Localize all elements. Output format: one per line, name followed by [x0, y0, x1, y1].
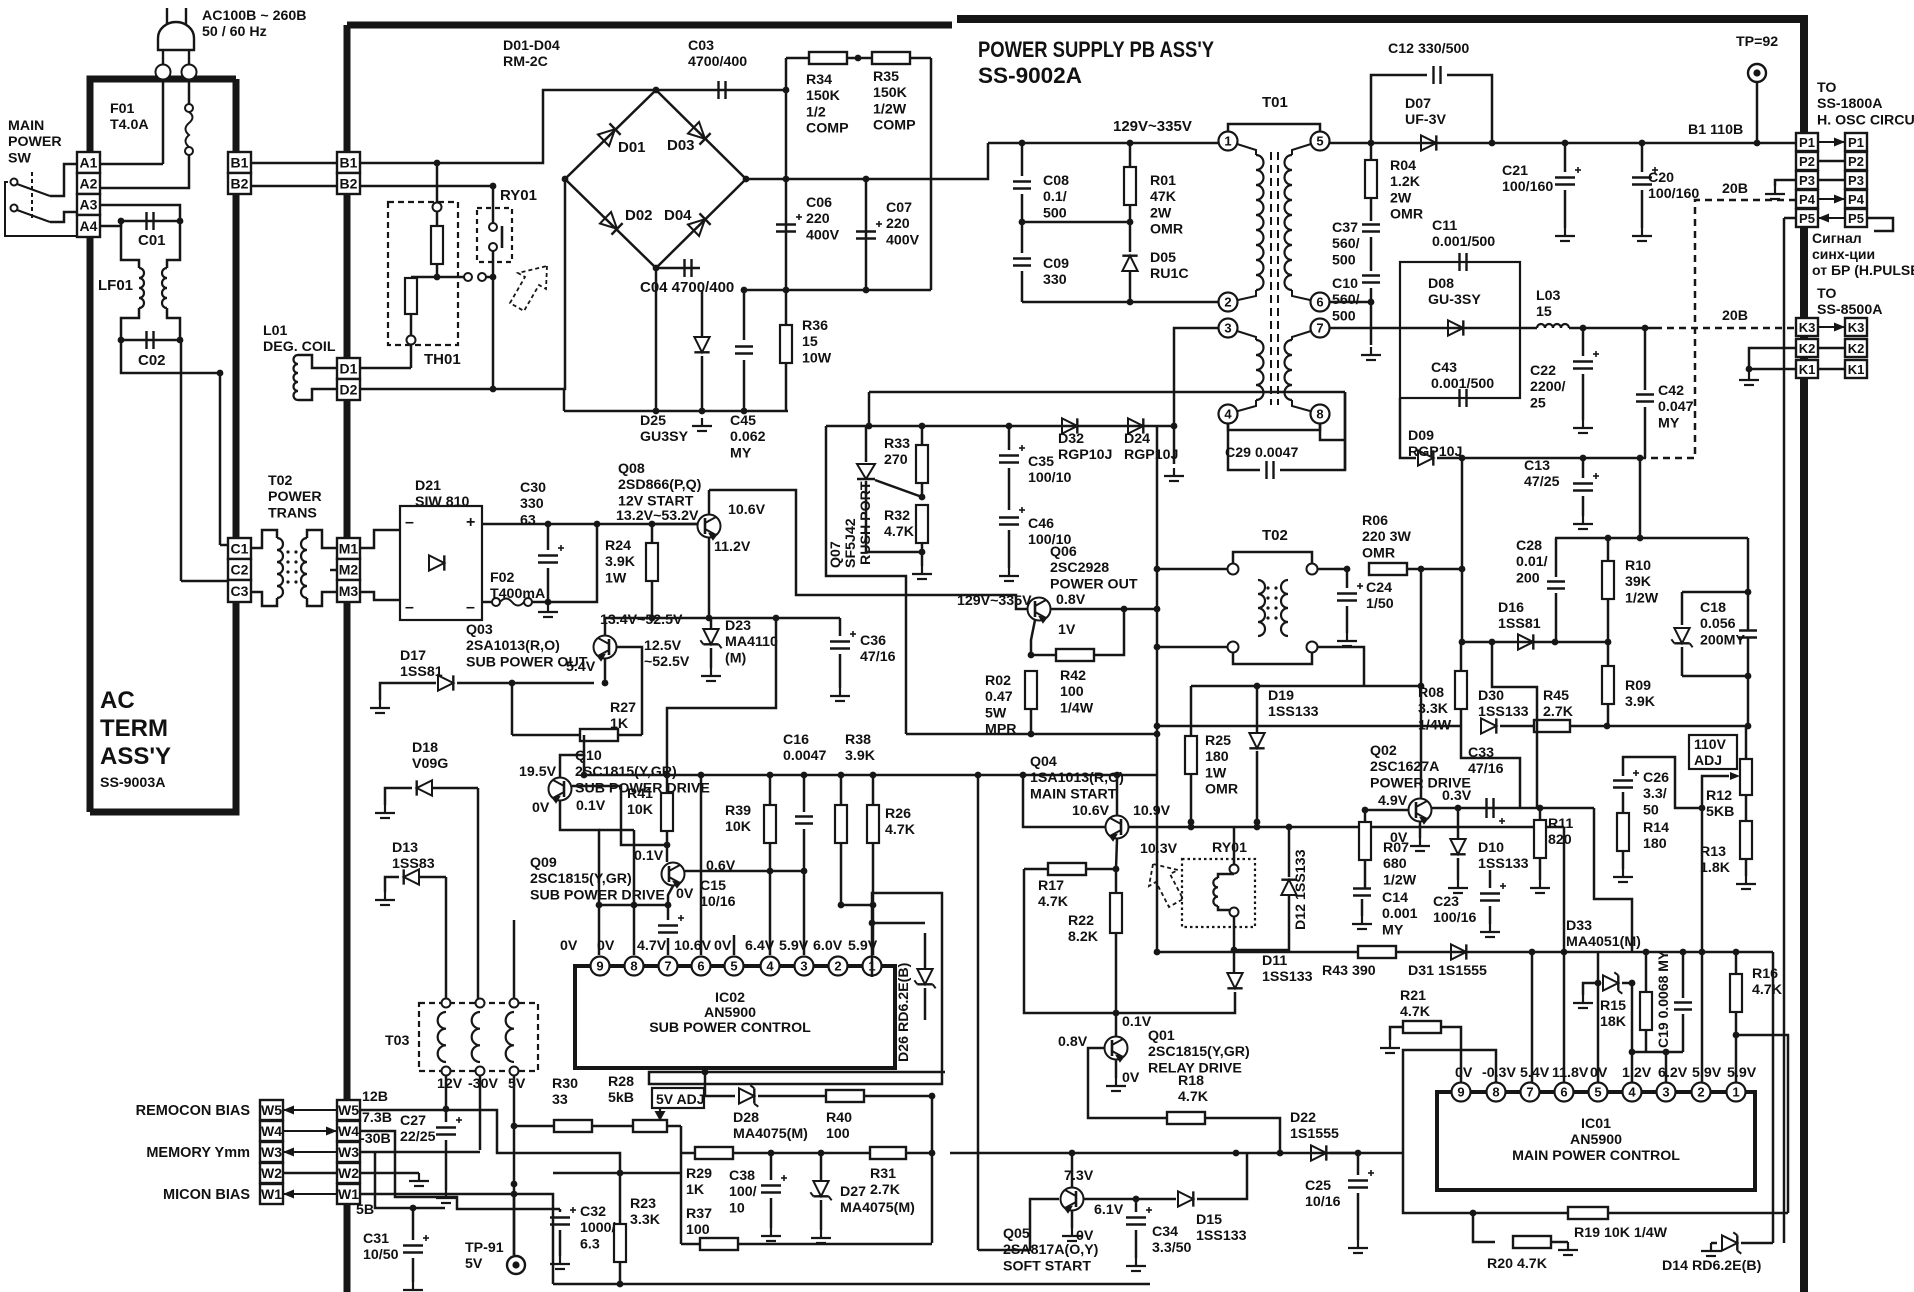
capacitor C19: [1682, 952, 1685, 998]
svg-text:MA4075(M): MA4075(M): [733, 1126, 808, 1142]
transformer T02 core dots: [1266, 586, 1269, 589]
resistor R22: [1115, 869, 1118, 894]
ground D23: [701, 668, 721, 681]
ground Q02: [1410, 838, 1430, 851]
svg-text:R24: R24: [605, 538, 631, 554]
diode D13 row: [385, 877, 399, 892]
svg-text:D25: D25: [640, 413, 666, 429]
wire pin3 drop: [803, 871, 806, 955]
wire D2 bus: [360, 388, 493, 391]
connector W5 left: [260, 1100, 283, 1120]
wire Q03 top: [604, 618, 607, 635]
connector W1 left: [260, 1184, 283, 1204]
svg-text:4.7K: 4.7K: [1178, 1089, 1209, 1105]
capacitor C45: [735, 347, 753, 354]
wire P5 hook: [1867, 218, 1893, 231]
wire R28 right column: [680, 1126, 683, 1244]
svg-text:4.7V: 4.7V: [637, 938, 667, 954]
wire down to C1: [219, 373, 222, 545]
svg-text:5: 5: [1594, 1085, 1601, 1100]
svg-text:R27: R27: [610, 700, 636, 716]
svg-text:0.1/: 0.1/: [1043, 189, 1067, 205]
svg-text:R12: R12: [1706, 788, 1732, 804]
transformer T01 winding 3-4: [1237, 331, 1256, 340]
svg-text:C09: C09: [1043, 256, 1069, 272]
svg-text:MICON BIAS: MICON BIAS: [163, 1187, 250, 1203]
wire pin5 stub: [733, 935, 736, 955]
resistor R01: [1129, 143, 1132, 167]
svg-text:H. OSC CIRCUIT: H. OSC CIRCUIT: [1817, 112, 1914, 128]
pin T01-6: [1311, 293, 1330, 312]
wire D32 D24 row: [826, 425, 1174, 428]
svg-text:POWER SUPPLY PB ASS'Y: POWER SUPPLY PB ASS'Y: [978, 37, 1214, 62]
wire Q09 emitter: [668, 886, 673, 905]
capacitor C28: [1555, 538, 1558, 577]
diode D32: [1062, 418, 1077, 433]
wire Q02 emitter: [1419, 822, 1422, 838]
svg-text:10/16: 10/16: [700, 894, 736, 910]
svg-text:R22: R22: [1068, 913, 1094, 929]
svg-text:0.062: 0.062: [730, 429, 766, 445]
terminal B1 board: [337, 152, 360, 173]
capacitor C38: [770, 1153, 773, 1180]
transformer T02 winding left: [1258, 580, 1265, 636]
wire T03 5V up stub: [513, 920, 516, 1003]
svg-text:Q09: Q09: [530, 855, 557, 871]
transistor Q09: [662, 863, 685, 888]
resistor R18: [1167, 1112, 1205, 1124]
wire R34 left leg: [785, 58, 788, 90]
svg-text:0V: 0V: [1455, 1065, 1473, 1081]
connector P2 board: [1796, 152, 1818, 170]
zener C18 network diode: [1674, 628, 1689, 643]
capacitor C33: [1487, 798, 1506, 824]
wire plug to A1: [162, 79, 165, 164]
svg-text:K3: K3: [1848, 320, 1865, 335]
svg-text:1SS81: 1SS81: [1498, 616, 1541, 632]
svg-text:F02: F02: [490, 570, 515, 586]
diode D18 row: [385, 788, 412, 805]
pin IC01-4: [1623, 1083, 1642, 1102]
svg-text:3.3K: 3.3K: [1418, 701, 1449, 717]
pin IC02-6: [692, 957, 711, 976]
wire T02 in top: [1157, 568, 1227, 571]
wire bottom rail: [564, 410, 788, 413]
svg-text:~52.5V: ~52.5V: [644, 654, 690, 670]
svg-text:5kB: 5kB: [608, 1090, 634, 1106]
capacitor C22: [1582, 328, 1585, 356]
capacitor C37: [1362, 225, 1380, 232]
svg-text:50: 50: [1643, 802, 1659, 818]
svg-text:129V~335V: 129V~335V: [1113, 118, 1192, 135]
svg-text:P5: P5: [1799, 211, 1815, 226]
svg-text:3.9K: 3.9K: [1625, 694, 1656, 710]
pin T02 top-right: [1307, 564, 1318, 575]
wire to C1: [220, 544, 228, 547]
svg-text:10/50: 10/50: [363, 1247, 399, 1263]
resistor R24: [646, 543, 658, 581]
svg-text:C13: C13: [1524, 458, 1550, 474]
diode D09: [1418, 450, 1433, 465]
svg-text:C02: C02: [138, 352, 166, 369]
pin IC02-5: [725, 957, 744, 976]
wire W4 arrow: [283, 1130, 337, 1132]
svg-text:B1 110B: B1 110B: [1688, 122, 1743, 138]
svg-text:Q02: Q02: [1370, 743, 1397, 759]
wire Q02 collector: [1420, 569, 1423, 798]
svg-text:15: 15: [802, 334, 818, 350]
svg-text:47/16: 47/16: [1468, 761, 1504, 777]
potentiometer R12: [1745, 726, 1748, 760]
svg-text:K1: K1: [1799, 362, 1816, 377]
wire R17 left column: [1024, 869, 1116, 1013]
svg-text:330: 330: [520, 496, 544, 512]
svg-text:1/2W: 1/2W: [1625, 590, 1659, 606]
svg-text:33: 33: [552, 1092, 568, 1108]
svg-text:C31: C31: [363, 1231, 389, 1247]
wire LF01 out B: [167, 308, 180, 340]
wire 12V drop: [445, 1075, 448, 1109]
svg-text:Q06: Q06: [1050, 544, 1077, 560]
wire Q10 top: [560, 755, 584, 777]
connector P5外 harness: [1845, 209, 1867, 227]
svg-text:SUB POWER DRIVE: SUB POWER DRIVE: [530, 887, 665, 903]
svg-text:OMR: OMR: [1150, 222, 1183, 238]
relay RY01 contact: [492, 186, 495, 223]
capacitor C07: [856, 221, 882, 239]
svg-text:POWER: POWER: [8, 134, 62, 150]
pin T01-1: [1219, 132, 1238, 151]
svg-text:5.9V: 5.9V: [848, 938, 878, 954]
resistor R21: [1441, 1027, 1461, 1083]
wire B1 link: [251, 162, 337, 165]
resistor R35: [872, 52, 910, 64]
diode D04: [688, 213, 711, 236]
wire Q04 emitter: [1116, 839, 1117, 869]
wire K2 link: [1818, 347, 1845, 350]
connector P1外 harness: [1845, 133, 1867, 151]
svg-text:C34: C34: [1152, 1224, 1178, 1240]
wire A1 lead: [99, 163, 163, 166]
diode D25: [694, 337, 709, 352]
resistor R19: [1568, 1207, 1608, 1219]
svg-text:D33: D33: [1566, 918, 1592, 934]
wire pin4 column: [1631, 983, 1634, 1083]
svg-text:47/25: 47/25: [1524, 474, 1560, 490]
svg-text:12V START: 12V START: [618, 493, 694, 509]
svg-text:W1: W1: [338, 1186, 359, 1202]
svg-text:1W: 1W: [1205, 765, 1227, 781]
svg-text:TRANS: TRANS: [268, 505, 317, 521]
wire -30V drop: [479, 1075, 482, 1150]
resistor R33: [921, 426, 924, 445]
transformer T02 frame mid: [1233, 552, 1312, 569]
relay RY01 coil box: [1182, 859, 1255, 927]
svg-text:2SD866(P,Q): 2SD866(P,Q): [618, 477, 702, 493]
wire to C3: [181, 580, 228, 583]
svg-text:2SC1815(Y,GR): 2SC1815(Y,GR): [575, 764, 677, 780]
svg-text:0.1V: 0.1V: [576, 798, 606, 814]
svg-text:D01: D01: [618, 139, 646, 156]
svg-text:1/2: 1/2: [806, 104, 826, 120]
svg-text:D18: D18: [412, 740, 438, 756]
wire W4 7.3B: [360, 1131, 560, 1209]
svg-text:4.9V: 4.9V: [1378, 793, 1408, 809]
svg-text:T02: T02: [1262, 527, 1288, 544]
svg-text:SIW 810: SIW 810: [415, 494, 470, 510]
svg-text:4.7K: 4.7K: [885, 822, 916, 838]
svg-text:C32: C32: [580, 1204, 606, 1220]
svg-text:TP-91: TP-91: [465, 1240, 504, 1256]
svg-text:3: 3: [1224, 321, 1231, 336]
wire D13 to T03 12V: [445, 877, 448, 1003]
wire L01 to D1: [298, 355, 337, 368]
wire TH01 to D1: [410, 344, 413, 368]
svg-text:R29: R29: [686, 1166, 712, 1182]
svg-text:8: 8: [630, 959, 637, 974]
diode D30: [1481, 718, 1496, 733]
svg-text:150K: 150K: [873, 85, 908, 101]
svg-text:100: 100: [826, 1126, 850, 1142]
diode D31: [1451, 944, 1466, 959]
svg-text:0.8V: 0.8V: [1058, 1034, 1088, 1050]
zener D26: [872, 923, 925, 977]
svg-text:R06: R06: [1362, 513, 1388, 529]
capacitor C06: [776, 214, 802, 232]
transistor Q05: [1061, 1188, 1084, 1213]
wire Q08 base: [652, 523, 698, 526]
wire 13.4V rail: [605, 617, 840, 620]
wire pin9 drop: [598, 905, 601, 955]
svg-text:D11: D11: [1262, 953, 1287, 969]
svg-text:10K: 10K: [725, 819, 752, 835]
wire bottom rail to relay node: [563, 389, 566, 411]
svg-text:W5: W5: [261, 1102, 282, 1118]
pin T03 top x446: [442, 999, 451, 1008]
svg-text:AN5900: AN5900: [704, 1005, 756, 1021]
wire B2 bus: [360, 185, 496, 188]
svg-text:C25: C25: [1305, 1178, 1331, 1194]
pin T03 top x514: [510, 999, 519, 1008]
wire switch to A3: [50, 212, 77, 222]
svg-text:OMR: OMR: [1205, 782, 1238, 798]
pin IC01-7: [1521, 1083, 1540, 1102]
wire K3 arrow: [1818, 326, 1845, 328]
svg-text:D01-D04: D01-D04: [503, 38, 560, 54]
svg-text:C16: C16: [783, 732, 809, 748]
svg-text:R07: R07: [1383, 840, 1409, 856]
connector W4 left: [260, 1121, 283, 1141]
svg-text:P3: P3: [1848, 173, 1864, 188]
svg-text:B2: B2: [231, 176, 249, 192]
resistor R31: [870, 1147, 906, 1159]
wire Q01 base to R18: [1088, 1048, 1167, 1118]
svg-text:0V: 0V: [676, 886, 694, 902]
svg-text:0.001: 0.001: [1382, 906, 1418, 922]
terminal A3: [77, 194, 100, 215]
wire filter lower branch: [121, 340, 220, 373]
svg-text:5V: 5V: [465, 1256, 483, 1272]
svg-text:5KB: 5KB: [1706, 804, 1734, 820]
svg-text:220: 220: [886, 216, 910, 232]
wire rail to bus: [667, 618, 776, 775]
resistor R07: [1364, 810, 1367, 822]
svg-text:0.001/500: 0.001/500: [1431, 376, 1494, 392]
terminal D1: [337, 358, 360, 379]
svg-text:–: –: [466, 599, 475, 616]
svg-text:D04: D04: [664, 207, 692, 224]
diode D16: [1518, 634, 1533, 649]
svg-text:5: 5: [1316, 134, 1323, 149]
wire pin2 column: [1701, 952, 1704, 1083]
svg-text:–: –: [405, 599, 414, 616]
wire M2 stub: [330, 569, 337, 572]
svg-text:18K: 18K: [1600, 1014, 1627, 1030]
svg-text:P1: P1: [1799, 135, 1815, 150]
resistor R37: [681, 1243, 700, 1246]
wire rush box left: [826, 426, 906, 734]
svg-text:1/50: 1/50: [1366, 596, 1394, 612]
svg-text:M3: M3: [339, 583, 359, 599]
diode D24: [1128, 418, 1143, 433]
wire Q08 collector: [708, 490, 711, 514]
wire T02 out bottom: [1318, 647, 1364, 686]
svg-text:R42: R42: [1060, 668, 1086, 684]
svg-text:2W: 2W: [1150, 205, 1172, 221]
wire Q03 bottom: [604, 659, 607, 683]
svg-text:C45: C45: [730, 413, 756, 429]
capacitor C26: [1623, 757, 1702, 808]
wire 20B dashed to P4: [1646, 200, 1796, 458]
svg-text:330: 330: [1043, 272, 1067, 288]
wire DC+ to T01: [931, 143, 988, 179]
svg-text:8: 8: [1492, 1085, 1499, 1100]
pin IC02-8: [625, 957, 644, 976]
capacitor C14: [1353, 889, 1371, 896]
svg-text:10.9V: 10.9V: [1133, 803, 1171, 819]
capacitor C36: [839, 618, 842, 636]
wire W3 arrow: [283, 1151, 337, 1153]
pin T01-5: [1311, 132, 1330, 151]
svg-text:MAIN POWER CONTROL: MAIN POWER CONTROL: [1512, 1148, 1680, 1164]
resistor R36: [780, 325, 792, 363]
svg-text:500: 500: [1332, 308, 1356, 324]
capacitor C11: [1460, 253, 1467, 271]
wire B2 link: [251, 185, 337, 188]
terminal B1 left: [228, 152, 251, 173]
wire Q02 base: [1365, 809, 1408, 812]
connector P3外 harness: [1845, 171, 1867, 189]
svg-text:1: 1: [1224, 134, 1231, 149]
svg-text:6.2V: 6.2V: [1658, 1065, 1688, 1081]
ground C46: [999, 568, 1019, 581]
svg-text:A2: A2: [80, 176, 98, 192]
svg-text:Q04: Q04: [1030, 754, 1057, 770]
svg-text:D31 1S1555: D31 1S1555: [1408, 963, 1487, 979]
svg-text:D24: D24: [1124, 431, 1150, 447]
svg-text:A4: A4: [80, 218, 98, 234]
resistor R11: [1534, 820, 1546, 858]
svg-text:L01: L01: [263, 323, 288, 339]
wire Q03 right: [617, 647, 642, 735]
svg-text:F01: F01: [110, 101, 135, 117]
terminal A4: [77, 215, 100, 237]
svg-text:RM-2C: RM-2C: [503, 54, 548, 70]
relay RY01 coil: [1233, 827, 1236, 864]
svg-text:D30: D30: [1478, 688, 1504, 704]
label 5V ADJ box: [652, 1088, 704, 1108]
svg-text:C28: C28: [1516, 538, 1542, 554]
svg-text:1S1555: 1S1555: [1290, 1126, 1339, 1142]
ground pin3 node: [1164, 468, 1184, 481]
svg-text:10.6V: 10.6V: [728, 502, 766, 518]
pin IC01-5: [1589, 1083, 1608, 1102]
wire switch to A1: [50, 164, 77, 196]
svg-text:C36: C36: [860, 633, 886, 649]
svg-text:47K: 47K: [1150, 189, 1177, 205]
svg-text:5: 5: [730, 959, 737, 974]
capacitor C12 loop: [1371, 75, 1427, 143]
wire pin8 join: [1320, 424, 1345, 440]
svg-text:20B: 20B: [1722, 308, 1748, 324]
svg-text:C26: C26: [1643, 770, 1669, 786]
svg-text:P1: P1: [1848, 135, 1864, 150]
svg-text:0V: 0V: [560, 938, 578, 954]
svg-text:C20: C20: [1648, 170, 1674, 186]
svg-text:C22: C22: [1530, 363, 1556, 379]
svg-text:R23: R23: [630, 1196, 656, 1212]
wire C45 column: [743, 290, 746, 340]
svg-text:W4: W4: [338, 1123, 359, 1139]
svg-text:SS-9003A: SS-9003A: [100, 775, 165, 791]
wire main 10.9V rail: [1129, 826, 1564, 829]
wire K1 link: [1818, 368, 1845, 371]
wire D15 up: [1197, 1153, 1247, 1199]
wire control bus rail: [584, 774, 1157, 777]
wire L01 to D2: [298, 389, 337, 400]
svg-text:0.1V: 0.1V: [634, 848, 664, 864]
svg-text:R39: R39: [725, 803, 751, 819]
transistor Q04: [1106, 816, 1129, 841]
wire pin5 top: [1597, 952, 1600, 983]
svg-text:SOFT START: SOFT START: [1003, 1258, 1091, 1274]
svg-text:560/: 560/: [1332, 236, 1360, 252]
svg-text:6: 6: [697, 959, 704, 974]
wire soft start rail: [950, 1152, 1360, 1155]
wire pin6 column: [1563, 827, 1566, 1083]
wire W2 link: [283, 1172, 337, 1175]
svg-text:C27: C27: [400, 1113, 426, 1129]
svg-text:3.9K: 3.9K: [845, 748, 876, 764]
resistor R32: [916, 505, 928, 543]
svg-text:5B: 5B: [356, 1202, 374, 1218]
svg-text:R01: R01: [1150, 173, 1176, 189]
svg-text:C23: C23: [1433, 894, 1459, 910]
connector P4外 harness: [1845, 190, 1867, 208]
connector W1 board: [337, 1184, 360, 1204]
svg-text:110V: 110V: [1694, 736, 1727, 752]
svg-text:13.2V~53.2V: 13.2V~53.2V: [616, 508, 699, 524]
svg-text:400V: 400V: [806, 227, 840, 243]
svg-text:MA4051(M): MA4051(M): [1566, 934, 1641, 950]
svg-text:100/10: 100/10: [1028, 470, 1072, 486]
wire P4 arrow: [1818, 198, 1845, 200]
label 110V ADJ box: [1689, 735, 1737, 769]
wire D19 rail: [1191, 685, 1421, 688]
svg-text:0.047: 0.047: [1658, 399, 1694, 415]
resistor R42: [1031, 654, 1056, 657]
diode D09 row: [1400, 398, 1416, 458]
